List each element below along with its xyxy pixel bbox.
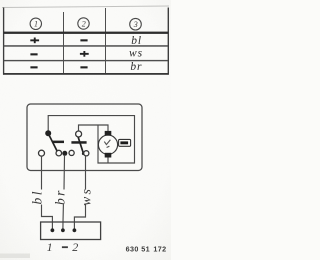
svg-text:ws: ws (78, 187, 93, 206)
svg-text:bl: bl (29, 189, 44, 204)
svg-text:1: 1 (34, 20, 38, 29)
svg-text:1: 1 (47, 240, 53, 254)
svg-text:630: 630 (126, 245, 139, 254)
svg-text:br: br (130, 61, 142, 73)
svg-text:172: 172 (153, 245, 166, 254)
svg-text:2: 2 (82, 19, 86, 28)
svg-text:bl: bl (131, 35, 142, 47)
svg-text:br: br (53, 188, 68, 205)
svg-text:51: 51 (141, 245, 150, 254)
svg-text:2: 2 (72, 240, 78, 254)
svg-text:3: 3 (133, 20, 138, 29)
svg-text:ws: ws (129, 47, 143, 59)
